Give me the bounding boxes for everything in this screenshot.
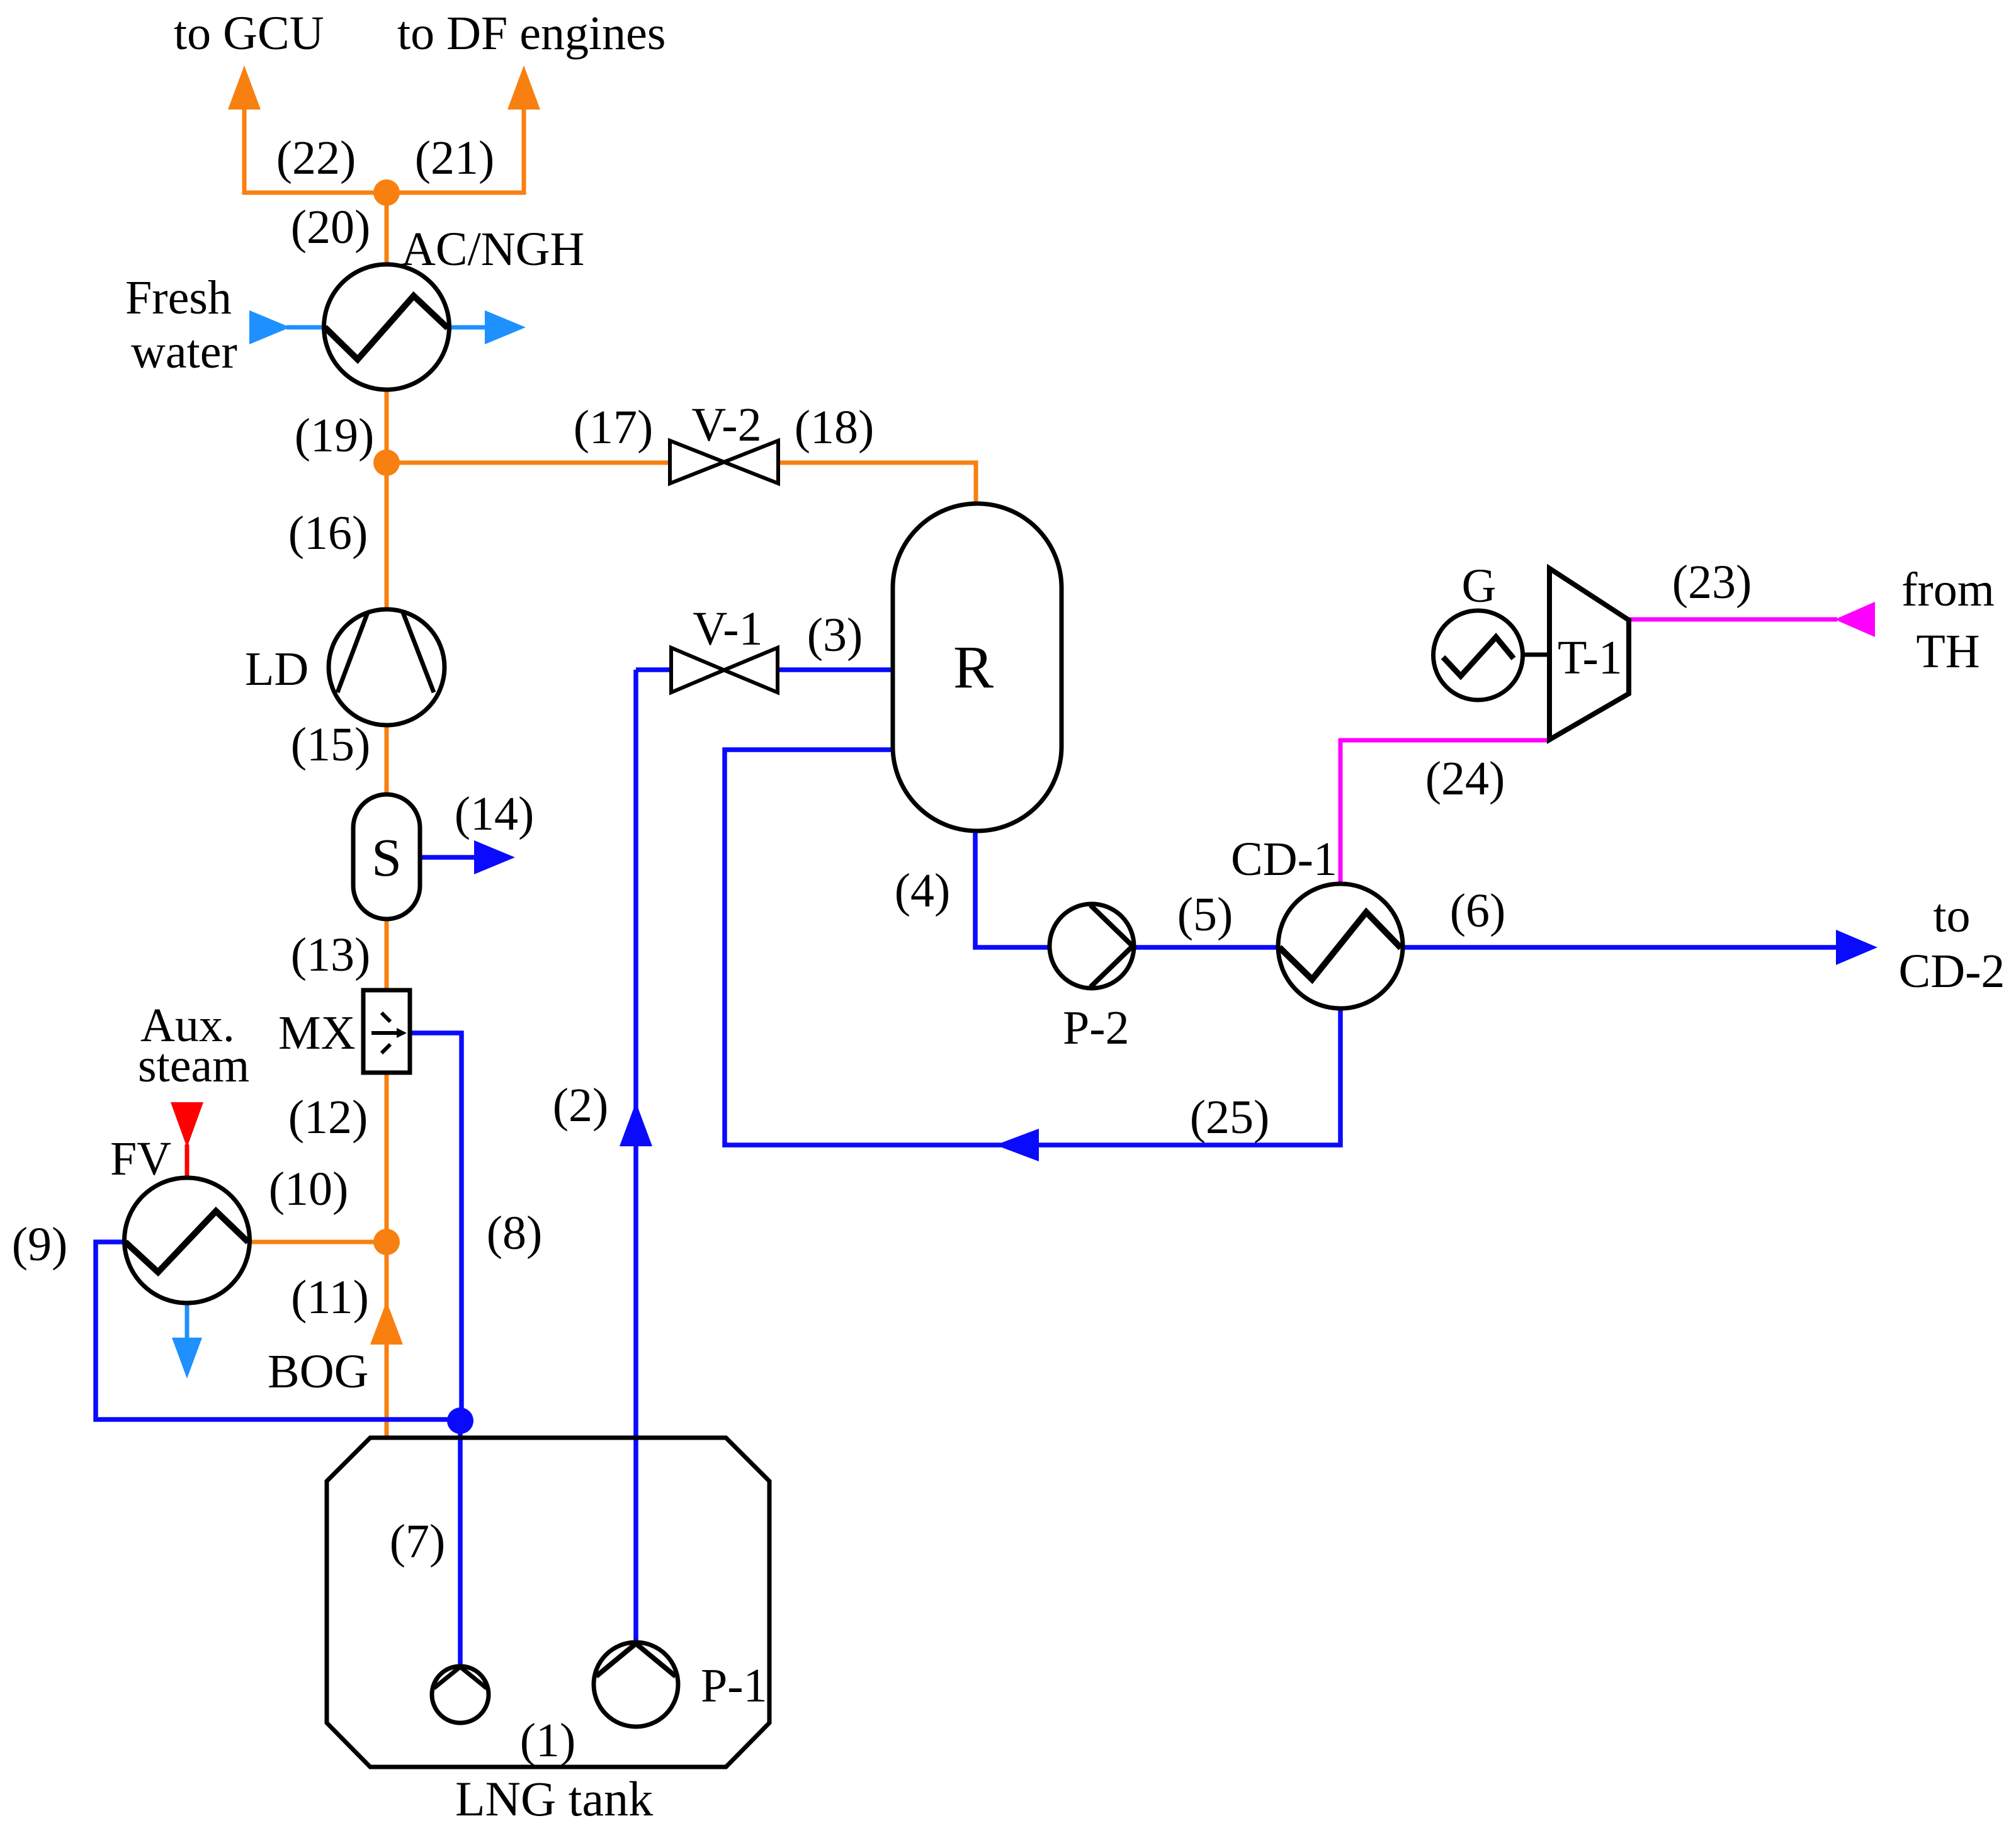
svg-text:(13): (13) [291,928,371,981]
wire stream 23 [1629,618,1837,622]
wire stream 5 [1134,945,1278,950]
svg-text:CD-2: CD-2 [1899,945,2005,998]
svg-text:AC/NGH: AC/NGH [401,223,584,276]
wire FV condensate drain [185,1303,190,1339]
vessel R [893,504,1062,831]
separator S [353,794,420,919]
valve V-2 [670,441,778,483]
node junction 19/17 [373,449,400,476]
wire stream 4 [975,831,1050,947]
arrow FV drain down [172,1338,202,1379]
wire stream 10 [249,1240,387,1244]
pump P-2 [1050,904,1134,988]
pump P-1 [594,1642,678,1727]
svg-text:(7): (7) [390,1515,446,1568]
wire stream 20 [385,193,389,265]
wire stream 22 to GCU (orange) [244,107,524,193]
arrow fresh water out [485,310,526,344]
wire stream 18 [778,463,976,505]
svg-text:V-1: V-1 [693,602,762,655]
svg-text:T-1: T-1 [1558,631,1622,684]
arrow stream 11 up [370,1301,403,1345]
svg-text:Fresh: Fresh [125,271,232,324]
svg-text:(17): (17) [574,401,654,454]
svg-text:(1): (1) [520,1714,576,1767]
mixer MX [363,990,410,1073]
arrow to GCU [228,65,261,110]
wire stream 16 [385,463,389,610]
svg-text:(10): (10) [269,1163,349,1216]
svg-text:TH: TH [1916,625,1979,678]
arrowhead MX symbol [397,1028,407,1038]
svg-text:(8): (8) [487,1207,543,1260]
arrow stream 25 left [995,1129,1039,1161]
svg-text:G: G [1462,560,1497,612]
svg-text:(6): (6) [1450,884,1506,937]
svg-text:(2): (2) [553,1079,609,1132]
svg-text:(3): (3) [807,609,863,662]
svg-text:(16): (16) [288,507,368,560]
arrow stream 6 to CD-2 [1836,930,1877,965]
wire stream 7 [458,1421,463,1667]
svg-text:to DF engines: to DF engines [397,7,665,60]
svg-text:P-1: P-1 [701,1659,767,1712]
svg-text:(19): (19) [295,409,375,462]
svg-text:water: water [131,325,237,378]
svg-text:(4): (4) [895,864,951,917]
arrow stream 14 [474,840,515,874]
svg-text:to GCU: to GCU [174,7,324,60]
heat exchanger AC/NGH [324,264,450,390]
svg-text:(5): (5) [1177,888,1233,941]
wire stream 25 return to R [725,750,1340,1145]
svg-text:P-2: P-2 [1063,1001,1130,1054]
arrow stream 2 up [620,1102,652,1146]
svg-text:(12): (12) [288,1091,368,1144]
svg-text:MX: MX [278,1007,355,1059]
LNG tank [327,1438,769,1767]
svg-text:(21): (21) [415,132,495,184]
node junction 21/22 [373,179,400,206]
svg-text:(23): (23) [1672,556,1752,609]
svg-text:steam: steam [138,1039,249,1092]
pump spray (7) [432,1666,489,1723]
svg-text:(25): (25) [1190,1091,1270,1144]
wire stream 9 [96,1242,460,1419]
wire stream 13 [385,918,389,991]
svg-text:(15): (15) [291,718,371,771]
svg-text:R: R [953,633,994,701]
svg-text:(18): (18) [795,401,875,454]
svg-text:S: S [371,827,402,888]
arrow fresh water in [249,310,290,344]
svg-text:LD: LD [245,643,309,696]
svg-text:(9): (9) [12,1218,68,1271]
arrow from TH [1835,602,1875,637]
wire aux steam [185,1144,190,1178]
svg-text:(20): (20) [291,201,371,254]
wire stream 12 [385,1072,389,1242]
arrow aux steam down [171,1102,203,1148]
node junction 7/8/9 [447,1408,473,1434]
compressor LD [329,609,445,725]
wire stream 2 riser [633,670,638,1642]
wire stream 24 [1340,740,1549,884]
svg-text:(22): (22) [276,132,356,184]
turbine T-1 [1549,568,1629,740]
heat exchanger CD-1 [1278,884,1403,1008]
svg-text:to: to [1933,889,1970,942]
wire stream 8 from MX [410,1033,462,1421]
wire stream 3 valve feed [636,667,671,672]
svg-text:(14): (14) [455,787,535,840]
valve V-1 [671,648,778,692]
wire stream 17 [387,461,670,465]
wire fresh water inlet [286,325,324,330]
svg-text:FV: FV [110,1132,171,1185]
heat exchanger FV [125,1178,250,1303]
wire G to T-1 shaft [1522,653,1549,657]
svg-text:LNG tank: LNG tank [455,1771,653,1826]
wire fresh water outlet [450,325,486,330]
svg-text:CD-1: CD-1 [1231,833,1337,886]
svg-text:BOG: BOG [268,1345,368,1398]
wire stream 6 [1403,945,1837,950]
node junction 10/11 [373,1229,400,1255]
generator G [1434,611,1523,700]
wire stream 19 [385,390,389,463]
wire stream 11 BOG riser [385,1242,389,1438]
wire stream 14 [420,855,475,860]
wire stream 15 [385,725,389,795]
svg-text:V-2: V-2 [691,398,761,451]
svg-text:from: from [1901,563,1995,616]
wire stream 3 to reactor [778,667,893,672]
svg-text:(11): (11) [291,1271,369,1324]
arrow to DF engines [507,65,540,110]
svg-text:(24): (24) [1425,752,1505,805]
